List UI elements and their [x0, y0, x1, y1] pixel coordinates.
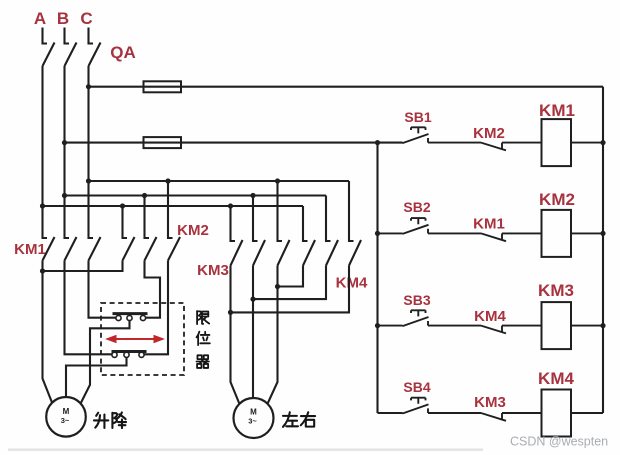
- disconnect switch QA pole B: [65, 28, 77, 67]
- wire limit lower middle to motor1 centre: [66, 357, 127, 398]
- wire bus L1 (from A): [43, 205, 304, 207]
- rung 2: NC contact KM1: [428, 216, 542, 242]
- rung 1: coil KM1: [539, 101, 603, 166]
- svg-text:3~: 3~: [248, 416, 257, 425]
- rung 4: NC contact KM3: [428, 394, 542, 421]
- rung 3: pushbutton SB3: [378, 292, 431, 326]
- contactor KM1 pole 2: [65, 196, 77, 261]
- svg-text:A: A: [34, 9, 46, 28]
- node right rail rung2: [600, 231, 605, 236]
- node bus L2 KM2p2: [142, 193, 147, 198]
- node crossover left: [40, 268, 45, 273]
- node bus L3 at C: [86, 178, 91, 183]
- wire bus L2 (from B): [65, 194, 327, 196]
- node bus L1 at A: [40, 203, 45, 208]
- wire KM1p3 to limit upper left: [89, 261, 116, 318]
- wire crossover KM1p1-KM2p1: [43, 261, 123, 272]
- svg-text:KM2: KM2: [539, 190, 575, 209]
- node bus L1 KM2p1: [120, 203, 125, 208]
- wire phase A vertical: [41, 66, 43, 206]
- limit switch box (dashed): [101, 303, 184, 375]
- bottom edge shading: [8, 449, 483, 451]
- rung 1: NC contact KM2: [428, 125, 542, 150]
- node right rail rung1: [600, 140, 605, 145]
- svg-text:KM1: KM1: [14, 241, 46, 258]
- node crossover at KM3p2: [250, 297, 255, 302]
- rung 1: pushbutton SB1: [403, 109, 432, 143]
- label 升: [94, 413, 108, 428]
- node B to fuse line 2: [62, 140, 67, 145]
- contactor KM1 pole 3: [89, 181, 101, 261]
- node bus L1 KM3p1: [228, 203, 233, 208]
- wire fuse line 1: [89, 86, 604, 88]
- wire KM2p3 to limit lower right: [144, 261, 168, 355]
- rung 2: coil KM2: [539, 190, 603, 257]
- rung 4: pushbutton SB4: [378, 379, 431, 414]
- wire crossover KM3p3-KM4p1: [278, 266, 304, 287]
- rung 3: NC contact KM4: [428, 308, 542, 333]
- svg-text:B: B: [57, 9, 69, 28]
- limit switch upper bridge bar: [113, 312, 148, 315]
- svg-text:KM1: KM1: [473, 216, 505, 233]
- wire phase C vertical: [87, 66, 89, 181]
- rung 2: pushbutton SB2: [378, 199, 431, 234]
- node bus L3 KM2p3: [165, 178, 170, 183]
- contactor KM3 pole 2: [253, 196, 265, 266]
- wire bus L3 (from C): [89, 180, 350, 182]
- disconnect switch QA pole A: [43, 28, 55, 67]
- label 左: [283, 412, 298, 427]
- node rail rung1: [375, 140, 380, 145]
- limit switch upper contact rollers: [116, 315, 121, 320]
- svg-text:KM4: KM4: [336, 275, 368, 292]
- travel direction arrow: [105, 335, 165, 344]
- contactor KM2 pole 2: [145, 196, 157, 261]
- label 限: [197, 311, 209, 324]
- fuse FU2: [144, 137, 182, 148]
- svg-text:QA: QA: [110, 43, 136, 62]
- contactor KM3 pole 1: [231, 206, 243, 266]
- svg-text:SB2: SB2: [403, 199, 430, 215]
- control right rail: [602, 87, 604, 413]
- rung 4: coil KM4: [538, 369, 603, 437]
- contactor KM2 pole 3: [168, 181, 180, 261]
- wire KM2p2 jog to limit upper right: [145, 261, 161, 318]
- label 位: [197, 332, 210, 345]
- svg-text:KM1: KM1: [539, 101, 575, 120]
- control left rail: [376, 143, 378, 413]
- wire KM3p3 to motor2 right: [267, 266, 277, 405]
- svg-text:KM2: KM2: [473, 125, 505, 142]
- contactor KM3 pole 3: [278, 181, 290, 266]
- motor M1 (hoist): [46, 397, 86, 437]
- wire KM1p2 to limit lower left: [65, 261, 113, 355]
- limit switch lower bridge bar: [112, 350, 147, 353]
- node right rail rung3: [600, 323, 605, 328]
- contactor KM1 pole 1: [43, 206, 55, 261]
- svg-text:KM4: KM4: [538, 369, 574, 388]
- wire fuse line 2 / control rung 1 feed: [65, 142, 403, 144]
- node rail rung2: [375, 231, 380, 236]
- svg-text:SB4: SB4: [403, 379, 430, 395]
- label 降: [112, 412, 126, 428]
- svg-text:KM3: KM3: [538, 281, 574, 300]
- label 右: [301, 412, 315, 426]
- fuse FU1: [144, 81, 182, 92]
- svg-text:3~: 3~: [61, 416, 70, 425]
- svg-text:SB1: SB1: [404, 109, 431, 125]
- wire crossover KM3p1-KM4p3: [231, 266, 350, 313]
- node C to fuse line 1: [86, 84, 91, 89]
- svg-text:KM2: KM2: [177, 222, 209, 239]
- node rail rung3: [375, 323, 380, 328]
- node bus L3 KM3p3: [275, 178, 280, 183]
- wire KM3p2 to motor2 centre: [252, 266, 254, 399]
- wire KM3p1 to motor2 left: [231, 266, 240, 405]
- limit switch lower contact rollers: [112, 352, 117, 357]
- contactor KM4 pole 2: [326, 196, 338, 266]
- svg-text:KM3: KM3: [197, 262, 229, 279]
- svg-text:CSDN @wespten: CSDN @wespten: [510, 435, 608, 449]
- node crossover at KM3p1: [228, 310, 233, 315]
- svg-text:C: C: [80, 9, 92, 28]
- contactor KM4 pole 1: [303, 206, 315, 266]
- wire crossover KM3p2-KM4p2: [253, 266, 326, 300]
- node bus L2 at B: [62, 193, 67, 198]
- svg-text:SB3: SB3: [403, 292, 430, 308]
- svg-text:KM3: KM3: [474, 394, 506, 411]
- rung 3: coil KM3: [538, 281, 603, 349]
- node bus L2 KM3p2: [250, 193, 255, 198]
- label 器: [197, 355, 209, 368]
- disconnect switch QA pole C: [89, 28, 101, 67]
- svg-text:KM4: KM4: [474, 308, 506, 325]
- contactor KM2 pole 1: [123, 206, 135, 261]
- wire phase B vertical: [63, 66, 65, 196]
- motor M2 (traverse): [234, 398, 274, 438]
- wire KM1p1 to motor1 left: [43, 261, 53, 404]
- wire limit upper middle to motor1 right: [81, 321, 130, 404]
- contactor KM4 pole 3: [349, 181, 361, 266]
- node crossover at KM3p3: [275, 284, 280, 289]
